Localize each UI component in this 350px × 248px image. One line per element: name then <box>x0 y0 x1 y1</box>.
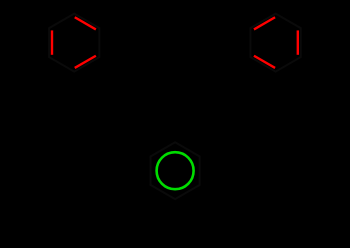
ring 1 double bond C1=C2 (red inner line, top-right edge) <box>75 17 96 29</box>
ring 2 double bond C1=C6 (red inner line, top-left edge) <box>254 17 275 29</box>
ring 2 double bond C4=C5 (red inner line, bottom-left edge) <box>254 56 275 68</box>
ring 2 double bond C2=C3 (red inner line, right edge) <box>297 30 299 54</box>
ring 1 double bond C5=C6 (red inner line, left edge) <box>51 30 53 54</box>
ring 1 double bond C3=C4 (red inner line, bottom-right edge) <box>75 56 96 68</box>
ring 3 aromatic circle (green highlight) <box>157 152 194 189</box>
benzene ring 2 (top-right) perimeter bonds <box>250 14 300 72</box>
benzene ring 1 (top-left) perimeter bonds <box>49 14 99 72</box>
benzene ring 3 (bottom-center) perimeter bonds <box>151 142 200 199</box>
